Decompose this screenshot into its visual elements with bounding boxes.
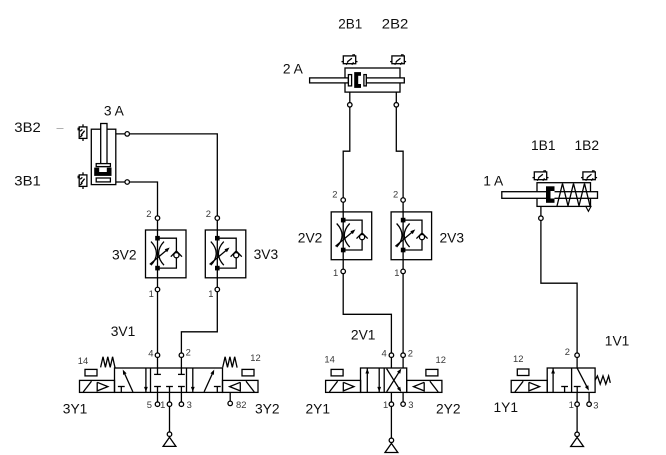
svg-text:1: 1 [569,399,574,410]
pilot 14 (2V1) [331,369,343,376]
svg-text:12: 12 [250,352,260,363]
svg-text:2V2: 2V2 [298,230,323,245]
svg-text:3V2: 3V2 [112,247,137,262]
solenoid 1Y1 [511,380,547,392]
wire 2A left port to 2V2 port 2 [343,92,350,212]
pilot 12 (2V1) [426,369,438,376]
sensor 1B2 [581,171,597,181]
flow control valve 2V2 [331,212,372,260]
sensor 2B2 [390,55,406,65]
svg-text:3B2: 3B2 [14,120,41,135]
node 2V2 port 2 [341,198,346,203]
cylinder 1A [502,183,598,212]
spring right (3V1) [223,357,237,368]
svg-text:1: 1 [383,399,388,410]
node 2A left port [348,103,353,108]
wire 1A port to 1V1 port 2 [541,206,577,368]
svg-text:2: 2 [186,346,191,357]
cylinder 3A [91,124,116,185]
wire 2V3 port 1 to 2V1 port 2 [402,260,404,368]
svg-text:2: 2 [146,208,151,219]
svg-text:5: 5 [147,399,152,410]
wire 2V1 port 1 to air supply [390,392,392,440]
svg-text:3B1: 3B1 [14,174,41,189]
node 3V1 port 5 [155,402,160,407]
valve 1V1 body [547,368,595,392]
svg-text:3V1: 3V1 [111,324,136,339]
svg-text:3Y1: 3Y1 [63,401,88,416]
node 3V1 port 4 [155,353,160,358]
solenoid 3Y1 [80,380,115,392]
spring left (3V1) [101,357,115,368]
svg-text:3Y2: 3Y2 [255,401,280,416]
svg-text:1: 1 [208,288,213,299]
svg-text:14: 14 [324,354,334,365]
node 3V1 port 3 [179,402,184,407]
node 2V1 port 4 [389,353,394,358]
wire 2A right port to 2V3 port 2 [396,92,403,212]
node 2V1 port 3 [401,402,406,407]
svg-text:2: 2 [393,189,398,200]
svg-text:1V1: 1V1 [605,333,630,348]
solenoid 2Y2 [407,380,442,392]
svg-text:1: 1 [160,399,165,410]
svg-text:2 A: 2 A [283,62,304,77]
svg-text:2: 2 [332,189,337,200]
wire 3V3 port 1 to 3V1 port 2 [181,278,217,368]
svg-text:3: 3 [593,399,598,410]
flow control valve 3V2 [146,230,187,278]
svg-text:2B2: 2B2 [382,17,409,32]
wire 3V2 port 1 to 3V1 port 4 [157,278,159,368]
sensor 1B1 [533,171,549,181]
node 3A bottom port [125,180,130,185]
svg-text:3V3: 3V3 [254,247,279,262]
node net20 dash (label 3B2 tie) [57,128,64,130]
cylinder 2A [310,68,405,92]
svg-text:2V1: 2V1 [351,328,376,343]
wire 3V1 port 5 stub [157,392,159,404]
node 3V3 port 2 [215,216,220,221]
flow control valve 2V3 [391,212,432,260]
svg-text:2: 2 [565,346,570,357]
pilot 12 (3V1) [242,369,254,376]
svg-text:1: 1 [333,267,338,278]
air supply source (circuit 3) [163,432,176,446]
wire 3V1 port 3 stub [180,392,182,404]
node 3A top port [125,132,130,137]
node 2A right port [394,103,399,108]
node 3V1 port 2 [179,353,184,358]
sensor 3B1 [78,172,87,189]
svg-text:1 A: 1 A [483,174,504,189]
svg-text:4: 4 [148,347,153,358]
svg-text:1B1: 1B1 [531,138,556,153]
svg-text:2Y1: 2Y1 [306,402,331,417]
svg-text:12: 12 [436,354,446,365]
wire 1V1 port 3 stub [588,392,590,404]
node 2V1 port 2 [401,353,406,358]
node 2V2 port 1 [341,269,346,274]
pilot 14 (3V1) [85,369,97,376]
wire 1V1 port 1 to air supply [576,392,578,434]
wire 2V2 port 1 to 2V1 port 4 [343,260,391,368]
node 3V1 port 82 [228,401,233,406]
node 2V1 port 1 [389,402,394,407]
wire 3V1 port 82 stub [229,392,231,403]
valve 2V1 body [361,368,407,392]
svg-text:82: 82 [236,399,246,410]
node 1A port [539,216,544,221]
node 3V1 port 1 [167,402,172,407]
wire 3V1 port 1 to air supply [169,392,171,434]
wire 3A top port to 3V3 port 2 [116,134,218,230]
svg-text:14: 14 [78,355,88,366]
svg-text:3: 3 [408,399,413,410]
pilot 12 (1V1) [517,369,529,376]
solenoid 2Y1 [326,380,361,392]
node 1V1 port 2 [575,353,580,358]
svg-text:2: 2 [408,347,413,358]
spring 1V1 [595,376,610,384]
svg-text:1B2: 1B2 [575,138,600,153]
sensor 2B1 [342,55,358,65]
svg-text:2: 2 [206,208,211,219]
svg-text:2Y2: 2Y2 [436,402,461,417]
svg-text:1: 1 [394,267,399,278]
svg-text:4: 4 [382,347,387,358]
air supply source (circuit 1) [571,432,584,446]
svg-text:2B1: 2B1 [338,17,362,32]
node 3V2 port 2 [155,216,160,221]
wire 3A bottom port to 3V2 port 2 [116,182,158,230]
wire 2V1 port 3 stub [402,392,404,404]
svg-text:1Y1: 1Y1 [494,400,519,415]
flow control valve 3V3 [205,230,246,278]
svg-text:12: 12 [513,353,523,364]
sensor 3B2 [78,124,87,141]
node 1V1 port 3 [587,402,592,407]
svg-text:1: 1 [149,288,154,299]
solenoid 3Y2 [223,380,259,392]
node 3V2 port 1 [155,287,160,292]
air supply source (circuit 2) [385,438,398,452]
svg-text:2V3: 2V3 [440,230,465,245]
node 2V3 port 1 [401,269,406,274]
node 1V1 port 1 [575,402,580,407]
svg-text:3: 3 [187,399,192,410]
svg-text:3 A: 3 A [104,103,125,118]
valve 3V1 body [115,368,223,392]
node 2V3 port 2 [401,198,406,203]
node 3V3 port 1 [215,287,220,292]
